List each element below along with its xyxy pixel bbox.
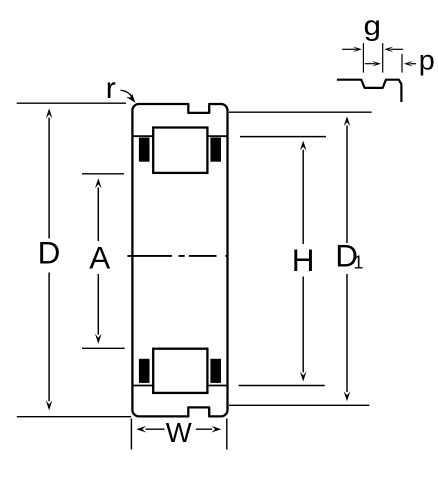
svg-text:1: 1 [353, 252, 363, 272]
svg-text:p: p [419, 45, 435, 76]
svg-text:W: W [166, 417, 192, 448]
svg-text:r: r [106, 72, 116, 105]
svg-text:A: A [89, 240, 110, 276]
svg-text:g: g [364, 10, 382, 41]
svg-text:H: H [292, 242, 315, 278]
svg-text:D: D [38, 235, 61, 271]
